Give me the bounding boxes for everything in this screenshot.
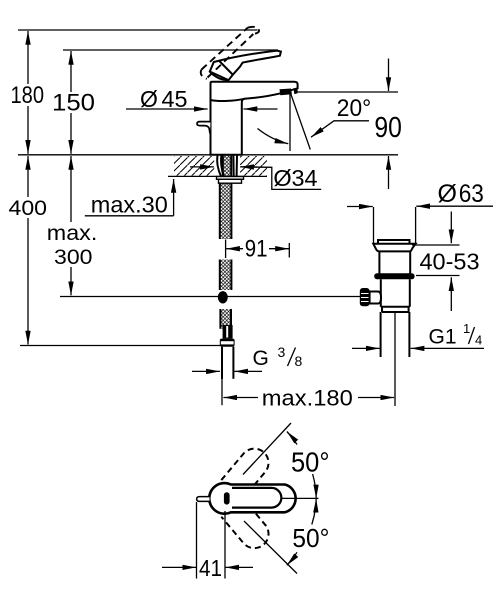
svg-text:8: 8: [295, 353, 303, 369]
drain plug disc: [378, 240, 410, 244]
deck hatching left: [174, 156, 214, 176]
svg-text:150: 150: [52, 90, 95, 117]
svg-text:Ø: Ø: [140, 86, 158, 112]
svg-text:max.180: max.180: [262, 385, 353, 410]
dimension max.180: [223, 397, 258, 399]
svg-text:G1: G1: [429, 326, 457, 349]
spout outlet height line: [297, 91, 398, 93]
dimension 400: [27, 156, 29, 197]
svg-text:50°: 50°: [291, 446, 330, 477]
svg-text:Ø: Ø: [438, 180, 457, 208]
lever handle: [210, 51, 281, 81]
mounting nut below deck: [217, 177, 244, 180]
aerator: [280, 89, 292, 96]
pop-up knob: [360, 288, 370, 306]
upper 50 deg arc: [313, 474, 317, 498]
plan view: hook tab: [197, 497, 210, 502]
countertop deck line: [18, 154, 398, 156]
G3/8 tail pipe: [222, 347, 233, 379]
svg-text:max.: max.: [47, 221, 98, 245]
svg-text:90: 90: [374, 112, 402, 144]
svg-text:41: 41: [199, 555, 222, 581]
pop-up rod horizontal: [60, 296, 361, 298]
lower 50 deg arc: [312, 499, 316, 525]
svg-text:180: 180: [11, 82, 45, 109]
rod joint: [218, 291, 228, 303]
drain upper cylinder: [379, 251, 410, 273]
dimension 91: [226, 248, 243, 250]
drain groove band: [382, 307, 409, 312]
extension line at 400 bottom: [20, 345, 220, 347]
flex hose lower segment: [220, 260, 232, 291]
lever crease: [219, 61, 232, 75]
svg-text:1: 1: [463, 321, 470, 336]
G3/8 dimension arrows: [192, 370, 220, 372]
dimension 90: [388, 59, 390, 92]
extension line lever tip height 150: [63, 49, 278, 51]
drain O-ring: [374, 273, 414, 279]
svg-text:34: 34: [292, 165, 318, 191]
svg-text:91: 91: [245, 235, 268, 262]
svg-text:Ø: Ø: [273, 165, 291, 191]
spout reach extension line: [288, 243, 290, 258]
svg-text:20°: 20°: [337, 95, 371, 122]
body-spout joint line: [211, 99, 245, 101]
dimension 41: [197, 502, 226, 579]
svg-text:40-53: 40-53: [420, 249, 480, 275]
svg-text:3: 3: [278, 344, 286, 360]
dashed lever rotated down: [221, 498, 274, 553]
dimension 180: [27, 31, 29, 84]
top extension line (lever raised height): [18, 29, 258, 31]
deck underside line: [168, 175, 267, 177]
hose centerline tick: [225, 240, 227, 259]
svg-text:300: 300: [54, 245, 93, 269]
hose segment below joint: [220, 309, 231, 329]
hook on body left: [197, 122, 211, 134]
hole arrows diameter 34: [190, 166, 214, 168]
dimension max.300: [70, 156, 72, 222]
hoses through deck: [223, 156, 231, 177]
plan view: center bar: [224, 492, 230, 504]
dashed raised lever: [201, 27, 259, 79]
swing angle lower diagonal: [244, 521, 297, 574]
angle 20 deg annotation: [289, 94, 291, 151]
svg-text:4: 4: [475, 333, 482, 348]
svg-text:G: G: [253, 347, 269, 370]
plan view: inner slot: [232, 488, 281, 508]
dimension 150: [70, 51, 72, 92]
svg-text:400: 400: [9, 196, 48, 220]
drain tailpipe G1 1/4: [381, 312, 410, 357]
flex hose upper segment: [220, 183, 232, 239]
plan view: centerline: [281, 497, 319, 499]
svg-text:max.30: max.30: [91, 191, 168, 217]
plan view: outer keyhole outline: [209, 483, 295, 514]
swing angle upper diagonal: [243, 423, 291, 475]
cap dome curve: [210, 72, 229, 81]
drain centerline: [394, 312, 396, 406]
faucet body and spout: [211, 82, 298, 155]
svg-text:45: 45: [162, 86, 188, 112]
knob stem: [370, 292, 381, 304]
dimension 40-53: [412, 245, 460, 276]
drain flange bell: [373, 244, 415, 252]
deck hatching right: [240, 156, 267, 176]
dashed lever rotated up: [221, 443, 274, 498]
drain flange extension lines: [374, 207, 416, 244]
drain lower cylinder: [381, 279, 410, 306]
svg-text:50°: 50°: [292, 523, 329, 553]
svg-text:63: 63: [459, 180, 484, 208]
hose crimp end: [223, 325, 233, 339]
hose nut G3/8: [220, 339, 235, 347]
